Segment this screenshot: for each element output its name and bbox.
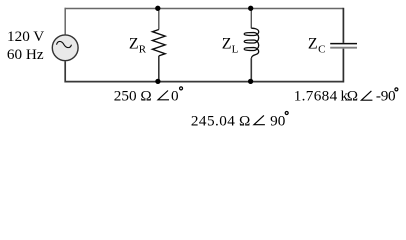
svg-text:250 Ω: 250 Ω (114, 88, 152, 105)
svg-text:90: 90 (270, 113, 286, 130)
svg-text:1.7684: 1.7684 (294, 88, 338, 105)
svg-text:Z: Z (222, 35, 232, 52)
svg-text:R: R (139, 44, 147, 56)
svg-text:245.04: 245.04 (191, 113, 235, 130)
svg-text:Z: Z (129, 35, 139, 52)
svg-text:Ω: Ω (347, 88, 358, 105)
svg-text:Ω: Ω (239, 113, 250, 130)
svg-text:C: C (318, 44, 325, 56)
svg-text:Z: Z (308, 35, 318, 52)
svg-text:L: L (232, 44, 239, 56)
svg-text:120 V: 120 V (7, 28, 44, 45)
svg-text:0: 0 (171, 88, 179, 105)
svg-text:-90: -90 (376, 88, 396, 105)
svg-text:60 Hz: 60 Hz (7, 46, 44, 63)
